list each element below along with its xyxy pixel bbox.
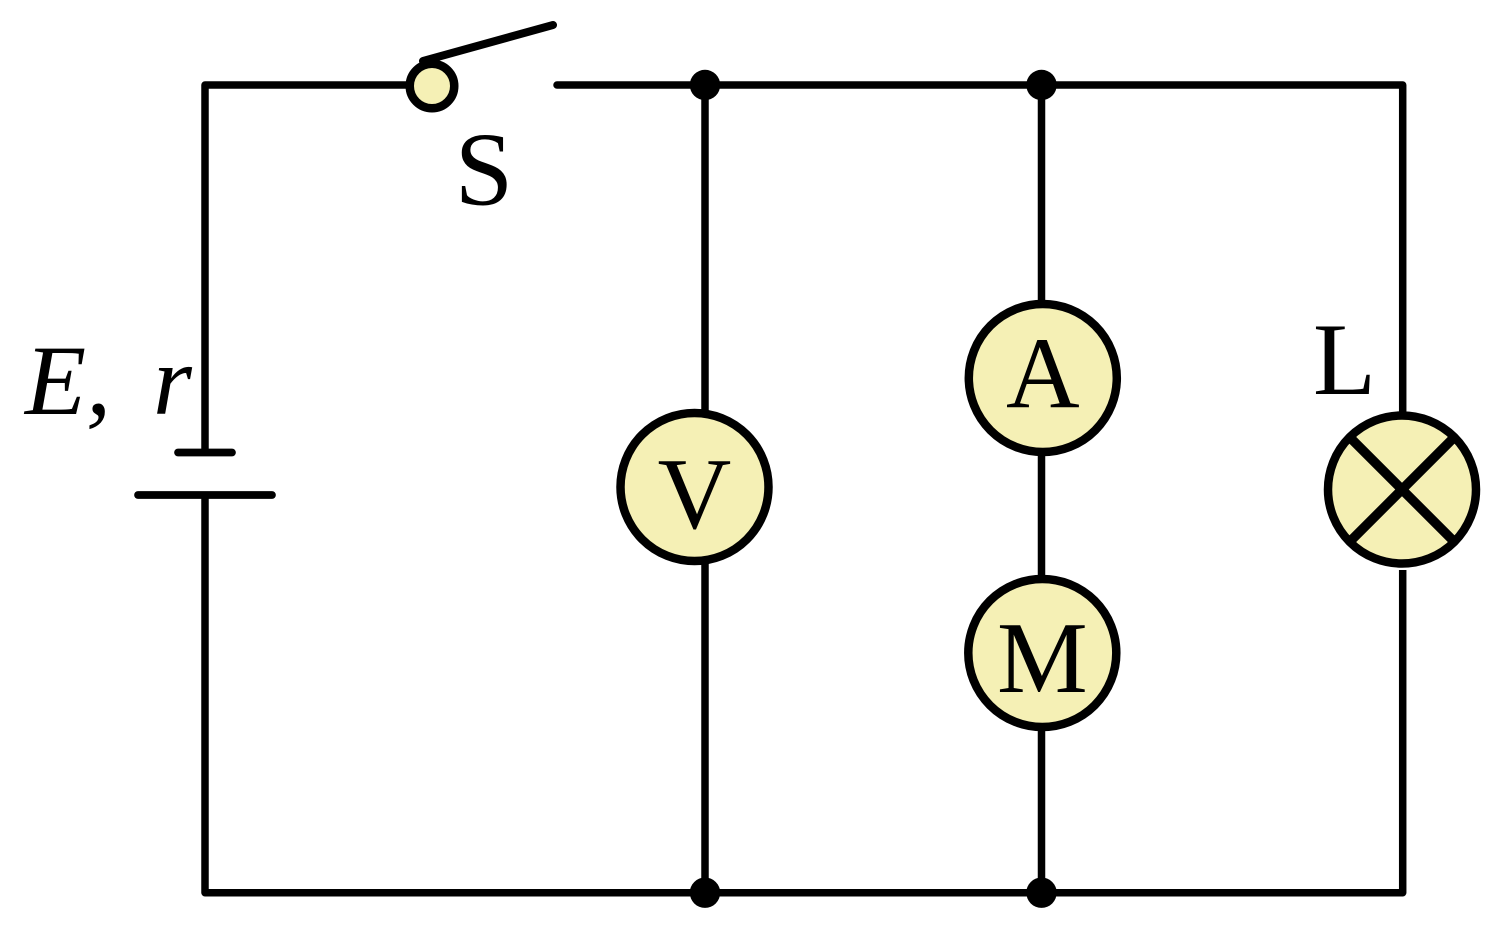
node: top junction of voltmeter branch: [690, 70, 720, 100]
voltmeter V: [621, 413, 769, 561]
wire: between ammeter and motor: [1038, 451, 1046, 580]
motor M: [968, 579, 1116, 727]
wire: voltmeter branch upper: [701, 85, 709, 414]
battery E,r short plate (top, negative): [178, 449, 232, 457]
lamp L circle: [1328, 416, 1476, 564]
svg-text:r: r: [153, 325, 193, 436]
wire: motor to bottom wire: [1038, 726, 1046, 893]
wire: left rail top segment + top wire to switch: [205, 85, 410, 452]
svg-text:A: A: [1006, 317, 1080, 430]
svg-text:L: L: [1313, 303, 1376, 417]
switch S pivot circle: [410, 64, 455, 109]
node: bottom junction of ammeter branch: [1026, 878, 1056, 908]
wire: ammeter/motor branch upper: [1038, 85, 1046, 305]
wire: voltmeter branch lower: [701, 561, 709, 893]
wire: left rail bottom segment + bottom wire + right rail up to lamp: [205, 495, 1403, 893]
lamp X stroke 2: [1347, 435, 1457, 545]
svg-text:M: M: [997, 602, 1088, 715]
lamp X stroke 1: [1347, 435, 1457, 545]
node: top junction of ammeter branch: [1026, 70, 1056, 100]
svg-text:V: V: [658, 438, 732, 551]
wire: top wire from switch to top-right corner, down to lamp: [557, 85, 1403, 414]
svg-text:S: S: [455, 111, 513, 228]
svg-text:E,: E,: [23, 325, 111, 436]
battery E,r long plate (bottom, positive): [138, 491, 272, 499]
ammeter A: [969, 304, 1117, 452]
switch S lever: [423, 25, 553, 61]
node: bottom junction of voltmeter branch: [690, 878, 720, 908]
